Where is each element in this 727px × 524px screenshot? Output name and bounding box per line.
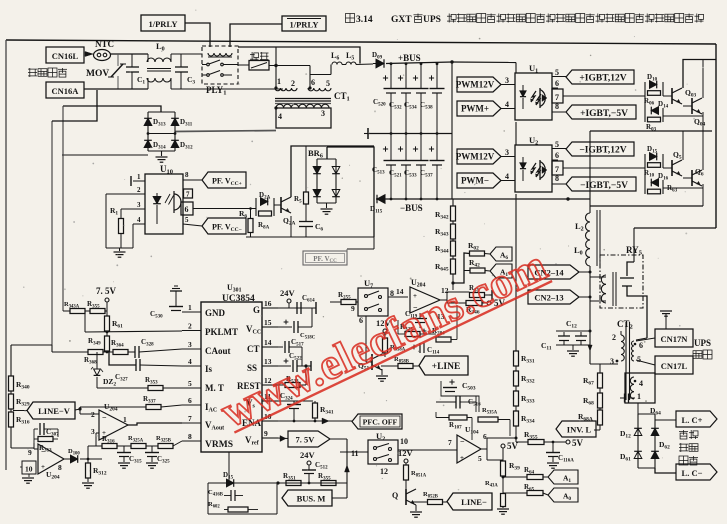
svg-text:8: 8 (555, 102, 559, 111)
wire Q6 emitter to lower rail (702, 184, 704, 206)
zener DZ2 (96, 352, 98, 369)
resistor R42 (464, 270, 470, 272)
wire output to relay branch (634, 227, 716, 229)
svg-text:12V: 12V (398, 448, 414, 458)
diode D62 (651, 451, 659, 458)
svg-text:PKLMT: PKLMT (205, 327, 238, 337)
resistor R64 (503, 476, 527, 478)
wire NTC to filter (111, 53, 149, 55)
svg-text:PFC. OFF: PFC. OFF (363, 418, 398, 427)
resistor R343 (452, 221, 454, 224)
flag CN2-13 (528, 290, 579, 304)
svg-text:−: − (41, 447, 46, 456)
U304 input chain (11, 447, 34, 449)
svg-text:4: 4 (505, 100, 509, 109)
resistor R334 (515, 406, 517, 411)
resistor R340 (10, 345, 12, 376)
svg-text:5: 5 (555, 140, 559, 149)
svg-text:GND: GND (205, 308, 226, 318)
resistor R353 (148, 386, 163, 391)
wire +BUS rail (386, 62, 452, 64)
label output current sense (679, 430, 688, 432)
svg-text:NTC: NTC (95, 39, 114, 49)
capacitor C325 (151, 446, 153, 452)
svg-text:G: G (253, 305, 260, 315)
wire -BUS rail (376, 198, 590, 200)
svg-text:−BUS: −BUS (400, 203, 423, 213)
resistor R852B (412, 501, 428, 503)
svg-text:9: 9 (264, 429, 268, 438)
wire emitter rail Q2A (246, 236, 374, 238)
flag LINE-V (13, 410, 27, 412)
svg-text:PWM+: PWM+ (461, 104, 489, 114)
resistor R333 (515, 386, 517, 391)
transformer CT1 core (275, 98, 331, 100)
wire to A flags (453, 253, 470, 283)
diode 14 / resistor 03 pair (644, 96, 646, 122)
wire CAout network (52, 351, 88, 353)
svg-text:CN2–13: CN2–13 (534, 293, 563, 303)
diode D115 (377, 195, 385, 204)
svg-text:10: 10 (25, 465, 33, 474)
arrow CN16L to NTC (85, 52, 93, 57)
svg-text:3: 3 (137, 201, 141, 209)
capacitor C516 (455, 396, 457, 409)
diode 16 / resistor 63 pair (644, 168, 646, 194)
svg-text:LINE−: LINE− (461, 497, 487, 507)
snubber box D15 C416B R602 (207, 483, 209, 514)
svg-text:6: 6 (639, 341, 643, 350)
lower rail (590, 205, 703, 207)
terminal 5V mid (487, 301, 491, 305)
pin 7 U10 (184, 189, 193, 198)
frame right rail (715, 44, 717, 228)
wire ENA to PFC.OFF (278, 420, 352, 422)
resistor R313 (38, 437, 53, 442)
wire CT2 tap (599, 364, 601, 373)
flag +LINE (419, 356, 468, 375)
resistor R337 (146, 405, 161, 410)
pin7 box U (552, 161, 563, 175)
relay PLY1 (202, 46, 238, 84)
resistor R68A (599, 408, 601, 410)
svg-text:4: 4 (505, 172, 509, 181)
diode D64 (651, 428, 659, 435)
transistor 5 (663, 167, 672, 169)
svg-text:MOV: MOV (86, 69, 109, 79)
resistor R355 lower (321, 481, 336, 486)
wire M.T (97, 387, 148, 389)
resistor R533 (278, 384, 285, 386)
sense rail A (51, 121, 53, 352)
ground CN17N (660, 310, 672, 312)
svg-text:CN16A: CN16A (52, 86, 80, 96)
label mains source (28, 68, 37, 70)
resistor R8A (259, 211, 272, 216)
svg-text:+: + (460, 454, 464, 462)
svg-text:15: 15 (264, 318, 272, 327)
resistor R364 (113, 350, 128, 355)
capacitor C1 (131, 54, 133, 67)
svg-text:6: 6 (188, 396, 192, 405)
svg-text:CN16L: CN16L (52, 51, 79, 61)
flag 7.5V (288, 431, 330, 447)
capacitor C512 (302, 469, 316, 471)
resistor R341 (313, 403, 318, 418)
svg-text:6: 6 (555, 79, 559, 88)
bottom rail (208, 482, 347, 484)
svg-text:5V: 5V (572, 438, 584, 448)
sense bridge rails (637, 403, 639, 414)
svg-text:5: 5 (185, 216, 189, 224)
svg-text:LINE−V: LINE−V (38, 406, 71, 416)
capacitor C3 (180, 54, 182, 67)
ground bridge (161, 151, 163, 156)
ground U304 (28, 474, 30, 477)
flag A0 (543, 493, 548, 495)
svg-text:7: 7 (448, 438, 452, 447)
resistor R107 (449, 415, 467, 420)
diode D15 (227, 479, 234, 487)
wire pin9 Vref (278, 437, 288, 440)
svg-text:3.14: 3.14 (356, 15, 373, 25)
wire relay bypass top (238, 47, 360, 64)
svg-text:1: 1 (188, 303, 192, 312)
transistor Q2A (274, 204, 281, 206)
capacitor C315 (123, 446, 125, 452)
capacitor C307 (34, 428, 38, 430)
connector CN16A (46, 82, 84, 98)
wire CN16A line (84, 88, 148, 90)
wire inverted 1/PRLY to relay coil (230, 24, 282, 47)
flag BUS.M (282, 490, 332, 506)
UC3854 right pins (262, 307, 278, 309)
bridge rails (148, 111, 175, 113)
svg-text:+IGBT,−5V: +IGBT,−5V (580, 109, 628, 119)
flag L.C- (655, 468, 676, 473)
flag LINE- (447, 493, 492, 510)
capacitor C327 branch (109, 352, 136, 365)
resistor R325B (158, 444, 173, 449)
svg-text:CT: CT (247, 344, 260, 354)
diode D2A (261, 198, 268, 206)
svg-text:+LINE: +LINE (432, 362, 461, 372)
capacitor bank upper C520 C532 C534 C538 (390, 64, 392, 88)
ground U10 input (106, 247, 133, 249)
wire transformer to rectifier bridge (175, 131, 276, 132)
resistor R39 (501, 461, 506, 476)
resistor R325A (131, 444, 146, 449)
svg-text:24V: 24V (280, 288, 296, 298)
transistor Q51 (365, 316, 367, 362)
svg-text:6: 6 (311, 78, 315, 87)
svg-text:9: 9 (351, 304, 355, 313)
svg-text:5: 5 (188, 379, 192, 388)
relay control box 1/PRLY (141, 15, 185, 31)
capacitor C503 (449, 381, 454, 383)
svg-text:2: 2 (291, 79, 295, 88)
svg-text:12: 12 (380, 467, 388, 476)
capacitor C324 (278, 400, 313, 402)
wire pin16 (278, 307, 316, 309)
pin 6 U10 (181, 202, 193, 215)
svg-text:4: 4 (188, 357, 192, 366)
svg-text:−: − (102, 413, 107, 422)
flag PF.Vcc+ (202, 172, 246, 188)
connector CN17N (636, 338, 655, 341)
flag A1 mid (485, 270, 490, 273)
wire opamp1 out to VAout (128, 423, 182, 425)
diode 15 / resistor 10 pair (644, 154, 646, 168)
transistor 04 (683, 105, 692, 107)
resistor R316 vertical (10, 409, 12, 412)
resistor R358A (383, 338, 388, 353)
svg-text:BUS. M: BUS. M (297, 494, 326, 504)
svg-text:24V: 24V (300, 450, 316, 460)
title chinese glyphs (346, 14, 704, 23)
frame left border (5, 40, 7, 470)
svg-text:8: 8 (555, 174, 559, 183)
svg-text:7: 7 (555, 93, 559, 102)
pin7 box U (552, 89, 563, 103)
svg-text:5: 5 (637, 355, 641, 364)
svg-text:SS: SS (247, 363, 257, 373)
capacitor C518C (278, 326, 292, 328)
feedback wires (398, 333, 405, 335)
svg-text:11: 11 (351, 449, 359, 458)
relay RY5 contact (627, 262, 634, 276)
svg-text:3: 3 (321, 109, 325, 118)
svg-text:3: 3 (188, 340, 192, 349)
resistor R02 (470, 251, 485, 256)
sense tap (52, 90, 97, 121)
svg-text:+: + (41, 463, 45, 471)
svg-text:−IGBT,−5V: −IGBT,−5V (580, 181, 628, 191)
connector CN17L (636, 360, 655, 365)
flag A6 (485, 253, 491, 256)
svg-text:1/PRLY: 1/PRLY (290, 20, 319, 30)
svg-text:1/PRLY: 1/PRLY (149, 19, 178, 29)
resistor R61 (105, 316, 110, 331)
wire AC sense to bridge (63, 106, 161, 112)
svg-text:UPS: UPS (694, 338, 711, 348)
transformer CT1 secondary winding (276, 104, 329, 108)
svg-text:2: 2 (188, 322, 192, 331)
title figure caption (356, 15, 441, 25)
diode D61 (634, 451, 642, 458)
svg-text:L. C+: L. C+ (682, 415, 703, 425)
capacitor C522 (278, 365, 291, 367)
wire BR6 top (327, 147, 374, 237)
flag PFC.OFF (352, 414, 402, 429)
wire fuse to transformer node (269, 65, 310, 67)
capacitor C530 (170, 290, 182, 292)
flag A1 bottom (543, 476, 548, 478)
svg-text:10: 10 (400, 437, 408, 446)
resistor R535A (478, 417, 498, 422)
resistor R346 (447, 302, 466, 304)
flag PWM+ input U (457, 101, 501, 116)
flag PWM12V input U (457, 77, 501, 92)
svg-text:1: 1 (137, 173, 141, 181)
diode D313 (144, 118, 152, 125)
svg-text:Is: Is (205, 364, 213, 374)
svg-text:2: 2 (137, 186, 141, 194)
svg-text:GXT: GXT (391, 15, 412, 25)
wire 1/PRLY to relay coil (185, 23, 210, 47)
terminator pin16 (315, 302, 317, 314)
diode D311 (171, 118, 179, 125)
wire PKLMT (84, 311, 86, 332)
VRMS filter chain (88, 445, 102, 447)
capacitor C614 (296, 302, 298, 314)
wire opamp outputs (440, 299, 447, 301)
svg-text:6: 6 (185, 205, 189, 214)
svg-text:7: 7 (555, 165, 559, 174)
resistor R349 (105, 336, 110, 351)
svg-text:INV. L: INV. L (567, 425, 592, 435)
inverter mid rail (590, 130, 712, 132)
svg-text:4: 4 (278, 112, 282, 121)
diode D100 (71, 455, 78, 463)
svg-text:VRMS: VRMS (205, 440, 233, 450)
UC3854 left pins (182, 311, 201, 313)
svg-text:+BUS: +BUS (398, 53, 421, 63)
resistor R65 (503, 492, 527, 494)
wire sense top (11, 344, 52, 346)
resistor R312 (87, 459, 89, 463)
transistor 6 (683, 177, 692, 179)
resistor R51 (470, 293, 485, 298)
svg-text:1: 1 (123, 415, 127, 424)
flag L.C+ (655, 419, 676, 421)
svg-text:1: 1 (637, 392, 641, 401)
resistor R331 (514, 351, 519, 366)
resistor R316 horizontal (102, 444, 117, 449)
diode D09 (373, 63, 376, 65)
mid rail (368, 133, 452, 135)
flag PWM&#8722; input U (457, 173, 501, 188)
transformer CT2 sense winding (625, 373, 655, 403)
svg-text:5: 5 (326, 79, 330, 88)
flag CN2-14 (528, 265, 579, 279)
resistor R332 (515, 366, 517, 371)
wire Q03 Q04 collectors to top rail (683, 60, 716, 89)
svg-text:6: 6 (555, 151, 559, 160)
flag INV.L (556, 421, 596, 437)
diode D314 (144, 140, 152, 147)
svg-text:7: 7 (186, 191, 190, 199)
svg-text:3: 3 (505, 76, 509, 85)
svg-text:PWM12V: PWM12V (456, 152, 495, 162)
svg-text:7: 7 (188, 414, 192, 423)
wire relay to fuse (238, 64, 249, 66)
resistor R851A (404, 465, 409, 480)
wire midrail down (589, 131, 591, 213)
svg-text:5: 5 (478, 454, 482, 463)
resistor R329 (10, 391, 12, 394)
wire Q5 collector to mid rail (682, 131, 684, 160)
resistor R351 (286, 481, 301, 486)
wire IAC (79, 407, 81, 409)
capacitor C6 (299, 221, 313, 223)
fuse baoxian (251, 52, 253, 61)
resistor R368 (88, 350, 103, 355)
svg-text:8: 8 (188, 432, 192, 441)
resistor R858B (382, 365, 398, 367)
wire Q04 emitter to mid rail (702, 112, 704, 131)
flag PWM12V input U (457, 149, 501, 164)
wire U104 outputs (481, 448, 487, 450)
svg-text:CN17N: CN17N (661, 334, 689, 344)
relay control box 1/PRLY inverted (282, 16, 326, 31)
resistor R68 (599, 388, 601, 393)
diode 10 / resistor 06 pair (644, 82, 646, 96)
svg-text:14: 14 (264, 338, 272, 347)
wire U2 to -BUS link (515, 194, 517, 199)
connector CN16L (46, 47, 84, 63)
flag PF.Vcc- (202, 218, 246, 234)
wire Q2A collector (291, 146, 374, 197)
svg-text:−IGBT,12V: −IGBT,12V (579, 146, 626, 156)
svg-text:14: 14 (396, 287, 404, 296)
svg-text:+IGBT,12V: +IGBT,12V (579, 74, 626, 84)
diode D312 (171, 140, 179, 147)
svg-text:3: 3 (610, 357, 614, 366)
wire bias chain (515, 199, 517, 351)
svg-text:5V: 5V (507, 441, 519, 451)
node bars D2A R8A (255, 198, 257, 216)
watermark www.elecfans.com (213, 240, 554, 437)
svg-text:Q: Q (392, 491, 398, 500)
mid rail terminator (367, 128, 369, 139)
transistor 03 (663, 95, 672, 97)
svg-text:9: 9 (28, 448, 32, 457)
bus mid vertical (451, 62, 453, 199)
terminal 5V right (566, 440, 570, 444)
ground C11 C12 (572, 345, 574, 350)
svg-text:PWM12V: PWM12V (456, 80, 495, 90)
ground Q51 (381, 369, 383, 375)
relay RY5 coil (601, 275, 606, 303)
resistor R67 (598, 373, 603, 388)
wire switch to U104 (398, 449, 457, 451)
svg-text:5: 5 (555, 68, 559, 77)
svg-text:−: − (460, 437, 465, 446)
sense rail B (62, 106, 64, 311)
svg-text:8: 8 (58, 463, 62, 472)
svg-text:4: 4 (639, 379, 643, 388)
capacitor C116A (552, 442, 554, 452)
svg-text:7. 5V: 7. 5V (96, 286, 117, 296)
svg-text:4: 4 (137, 216, 141, 224)
svg-text:3: 3 (91, 427, 95, 436)
svg-text:CN17L: CN17L (661, 361, 688, 371)
box PF.Vcc module (373, 237, 375, 249)
svg-text:16: 16 (264, 299, 272, 308)
svg-text:CAout: CAout (205, 346, 231, 356)
resistor R645 (452, 256, 454, 259)
wire R342 chain (452, 199, 454, 206)
svg-text:L. C−: L. C− (682, 468, 703, 478)
svg-text:8: 8 (185, 171, 189, 179)
capacitor C517 (278, 346, 283, 348)
svg-text:UPS: UPS (423, 15, 441, 25)
capacitor C328 (134, 346, 136, 358)
svg-text:6: 6 (483, 432, 487, 441)
svg-text:2: 2 (612, 333, 616, 342)
frame top border (6, 40, 716, 44)
